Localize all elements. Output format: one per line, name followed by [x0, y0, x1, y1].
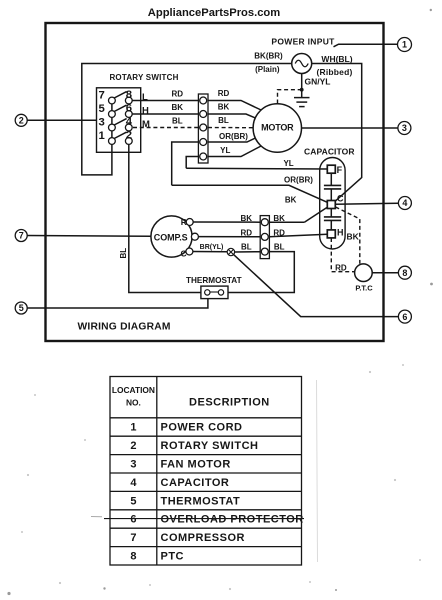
svg-text:CAPACITOR: CAPACITOR — [304, 146, 355, 156]
svg-text:5: 5 — [19, 303, 24, 313]
svg-text:H: H — [142, 105, 149, 116]
svg-text:GN/YL: GN/YL — [305, 77, 331, 87]
svg-text:RD: RD — [273, 229, 285, 238]
svg-text:POWER CORD: POWER CORD — [161, 422, 243, 434]
svg-text:4: 4 — [402, 198, 407, 208]
svg-text:AppliancePartsPros.com: AppliancePartsPros.com — [148, 7, 280, 19]
svg-text:BK: BK — [273, 214, 285, 223]
svg-text:RD: RD — [172, 90, 184, 99]
svg-text:RD: RD — [218, 89, 230, 98]
svg-text:YL: YL — [283, 159, 293, 168]
svg-text:POWER INPUT: POWER INPUT — [271, 37, 335, 47]
svg-text:BK(BR): BK(BR) — [254, 51, 283, 60]
svg-text:CAPACITOR: CAPACITOR — [161, 477, 230, 489]
svg-text:BL: BL — [274, 243, 285, 252]
svg-text:3: 3 — [130, 459, 136, 471]
svg-text:5: 5 — [130, 495, 136, 507]
svg-text:THERMOSTAT: THERMOSTAT — [186, 276, 242, 285]
svg-text:6: 6 — [126, 103, 132, 115]
svg-text:8: 8 — [402, 268, 407, 278]
svg-text:BK: BK — [218, 103, 230, 112]
svg-text:NO.: NO. — [126, 398, 141, 408]
svg-text:WH(BL): WH(BL) — [321, 54, 352, 64]
svg-text:OVERLOAD PROTECTOR: OVERLOAD PROTECTOR — [161, 514, 304, 526]
svg-text:YL: YL — [220, 146, 230, 155]
svg-text:FAN MOTOR: FAN MOTOR — [161, 459, 231, 471]
svg-text:8: 8 — [126, 89, 132, 101]
svg-text:WIRING DIAGRAM: WIRING DIAGRAM — [78, 322, 171, 333]
svg-text:DESCRIPTION: DESCRIPTION — [189, 397, 270, 409]
svg-text:4: 4 — [126, 116, 133, 128]
svg-text:7: 7 — [130, 532, 136, 544]
svg-text:BK: BK — [172, 103, 184, 112]
svg-text:C: C — [180, 248, 186, 258]
svg-text:MOTOR: MOTOR — [261, 123, 294, 133]
svg-text:C: C — [337, 193, 344, 203]
svg-text:BL: BL — [218, 116, 229, 125]
svg-text:THERMOSTAT: THERMOSTAT — [161, 495, 241, 507]
svg-text:PTC: PTC — [161, 551, 185, 563]
svg-text:8: 8 — [130, 551, 136, 563]
svg-text:(Ribbed): (Ribbed) — [316, 67, 352, 77]
svg-text:BK: BK — [347, 232, 360, 242]
svg-text:P.T.C: P.T.C — [355, 284, 373, 293]
svg-text:BK: BK — [285, 196, 297, 205]
svg-text:3: 3 — [98, 117, 104, 129]
svg-text:OR(BR): OR(BR) — [284, 176, 313, 185]
svg-text:1: 1 — [130, 422, 136, 434]
svg-text:7: 7 — [98, 90, 104, 102]
svg-text:OR(BR): OR(BR) — [219, 132, 248, 141]
svg-text:COMPRESSOR: COMPRESSOR — [161, 532, 245, 544]
svg-text:L: L — [142, 92, 148, 103]
svg-text:RD: RD — [241, 229, 253, 238]
svg-text:R: R — [181, 217, 187, 227]
svg-text:BK: BK — [241, 214, 253, 223]
svg-text:4: 4 — [130, 477, 137, 489]
svg-text:BL: BL — [241, 243, 252, 252]
svg-text:2: 2 — [130, 440, 136, 452]
svg-text:3: 3 — [402, 123, 407, 133]
svg-text:2: 2 — [126, 130, 132, 142]
svg-text:COMP.S: COMP.S — [154, 232, 188, 242]
svg-text:H: H — [337, 227, 344, 237]
svg-text:7: 7 — [19, 231, 24, 241]
svg-text:ROTARY SWITCH: ROTARY SWITCH — [161, 440, 259, 452]
svg-text:6: 6 — [402, 312, 407, 322]
svg-text:LOCATION: LOCATION — [112, 385, 155, 395]
svg-text:(Plain): (Plain) — [255, 65, 280, 74]
svg-text:2: 2 — [19, 115, 24, 125]
svg-text:1: 1 — [98, 130, 104, 142]
svg-text:6: 6 — [130, 514, 136, 526]
svg-text:F: F — [337, 165, 343, 175]
svg-text:1: 1 — [402, 40, 407, 50]
svg-text:BL: BL — [119, 248, 128, 259]
svg-text:M: M — [142, 119, 150, 130]
svg-text:5: 5 — [98, 103, 104, 115]
svg-text:BR(YL): BR(YL) — [200, 244, 224, 251]
svg-text:RD: RD — [335, 263, 347, 272]
svg-text:ROTARY SWITCH: ROTARY SWITCH — [109, 73, 178, 82]
svg-text:BL: BL — [172, 117, 183, 126]
